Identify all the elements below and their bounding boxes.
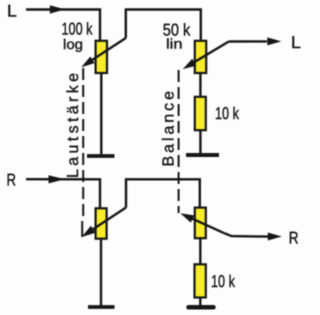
wire R input to P3 top	[26, 179, 100, 208]
potentiometer P1 body (100k log, L volume)	[96, 41, 107, 73]
wire P4 bottom to R2	[199, 238, 201, 264]
potentiometer P3 body (100k log, R volume)	[96, 208, 107, 238]
svg-text:L: L	[291, 33, 301, 52]
wire P1 wiper diagonal	[86, 38, 126, 64]
mechanical link solid end segment	[81, 221, 83, 237]
wire L input to P1 top	[26, 10, 100, 42]
resistor R1 body (10k)	[195, 97, 206, 130]
arrow R input	[49, 175, 66, 183]
svg-text:10 k: 10 k	[215, 104, 239, 123]
arrow P3 wiper	[82, 226, 96, 237]
mechanical link dashed (Lautstaerke gang)	[82, 68, 84, 221]
wire P3 wiper to P4 top	[126, 179, 200, 207]
resistor R2 body (10k)	[195, 264, 206, 297]
potentiometer P2 body (50k lin, L balance)	[195, 41, 206, 73]
wire P1 wiper to P2 top	[126, 10, 201, 42]
arrow R output	[268, 233, 282, 241]
ground G3	[88, 305, 115, 309]
arrow L output	[267, 37, 281, 45]
arrow P4 wiper	[180, 213, 194, 222]
ground G2	[186, 153, 219, 157]
ground G4	[189, 305, 214, 310]
svg-text:R: R	[7, 170, 17, 189]
svg-text:10 k: 10 k	[211, 272, 235, 291]
wire R1 to ground	[199, 130, 201, 153]
wire P4 wiper diagonal	[185, 215, 225, 233]
arrow L input	[50, 5, 65, 13]
mechanical link dashed (Balance gang)	[178, 70, 180, 213]
wire P3 wiper diagonal	[86, 208, 126, 234]
svg-text:R: R	[289, 229, 299, 248]
wire R output	[225, 233, 269, 236]
potentiometer P4 body (50k lin, R balance)	[195, 208, 206, 239]
svg-text:L: L	[7, 1, 17, 20]
arrow P1 wiper	[81, 57, 95, 68]
wire P2 bottom to R1	[199, 73, 201, 97]
wire P2 wiper diagonal	[187, 42, 229, 67]
wire L output	[229, 40, 267, 42]
wire P3 bottom to ground	[100, 239, 102, 306]
svg-text:log: log	[63, 36, 83, 52]
ground G1	[87, 154, 115, 158]
arrow P2 wiper	[183, 59, 197, 69]
svg-text:Lautstärke: Lautstärke	[65, 73, 82, 178]
svg-text:lin: lin	[166, 36, 183, 52]
wire R2 to ground	[199, 298, 201, 306]
wire P1 bottom to ground	[100, 73, 102, 154]
